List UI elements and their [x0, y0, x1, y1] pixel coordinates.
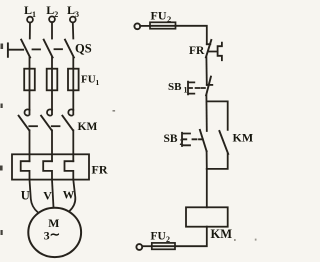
label KM (coil): [211, 227, 233, 241]
FR heater element pole3: [65, 161, 74, 179]
fuse FU2 bottom: [152, 243, 175, 249]
svg-text:1: 1: [184, 86, 188, 95]
terminal circle bottom: [136, 244, 142, 250]
svg-text:L: L: [67, 3, 75, 17]
svg-text:W: W: [63, 190, 75, 202]
wire FR to motor W: [70, 180, 76, 211]
wire L2 to QS: [51, 22, 53, 38]
wire QS to FU1 pole1: [29, 58, 31, 69]
label SB1: [168, 81, 188, 95]
wire QS to FU1 pole3: [72, 58, 74, 69]
wire FU1 to KM pole1: [29, 90, 31, 114]
fuse FU1 pole2: [47, 69, 58, 91]
SB1 NC contact blade: [206, 77, 211, 96]
KM aux NO contact blade: [219, 131, 228, 154]
svg-text:FR: FR: [92, 163, 108, 177]
wire junction to coil: [206, 169, 208, 207]
FR NC contact blade: [206, 40, 211, 57]
KM linkage dash 1: [29, 125, 37, 127]
wire FU1 to KM pole3: [72, 90, 74, 114]
terminal circle L1: [27, 17, 33, 23]
terminal circle L3: [70, 17, 76, 23]
motor label M: [48, 216, 59, 230]
contactor KM main contact pole2 (arc): [47, 109, 52, 115]
FR heater element pole1: [21, 161, 30, 179]
SB1 NC contact tick: [207, 84, 213, 86]
wire FR contact to SB1: [205, 57, 207, 85]
wire KM aux to bottom junction: [207, 154, 228, 169]
svg-text:FU: FU: [151, 9, 167, 23]
wire terminal to fuse FU2: [140, 25, 150, 27]
svg-text:FU: FU: [151, 231, 167, 243]
contactor coil KM: [186, 207, 228, 226]
label SB2: [164, 133, 184, 147]
wire FU2 to corner and down: [176, 26, 207, 44]
svg-text:L: L: [46, 3, 54, 17]
branch wire top (junction to KM aux): [207, 101, 228, 129]
svg-text:QS: QS: [75, 42, 92, 56]
svg-text:SB: SB: [164, 133, 178, 145]
wire fuse to terminal: [143, 245, 152, 247]
fuse FU1 pole3: [68, 69, 79, 91]
KM linkage dash 2: [52, 125, 60, 127]
wire SB1 to junction: [205, 95, 207, 131]
label FU2 bottom: [151, 231, 171, 245]
SB2 NO contact blade: [200, 130, 207, 151]
terminal circle top left of FU2: [134, 23, 140, 29]
svg-text:L: L: [24, 3, 32, 17]
FR thermal paddle: [209, 43, 222, 61]
svg-text:SB: SB: [168, 81, 182, 93]
wire KM to FR pole1: [29, 130, 31, 161]
wire FR to motor V: [52, 180, 54, 208]
label L2: [46, 3, 58, 19]
label U: [21, 189, 30, 203]
SB2 actuator dashes: [193, 138, 203, 140]
wire L1 to QS: [29, 23, 31, 39]
QS linkage dash 1: [33, 48, 41, 50]
label FU1: [81, 74, 100, 88]
motor M circle: [28, 208, 81, 257]
SB1 actuator E: [188, 82, 194, 95]
svg-text:∼: ∼: [50, 227, 60, 241]
label FR (overload): [92, 163, 108, 177]
contactor KM main contact pole3 (arc): [68, 109, 73, 115]
svg-text:V: V: [43, 188, 52, 202]
label FU2 top: [151, 9, 172, 25]
wire SB2 to bottom junction: [206, 151, 208, 169]
KM main blade pole2: [41, 116, 52, 131]
SB1 actuator dashes: [196, 87, 205, 89]
svg-text:1: 1: [96, 78, 100, 87]
thermal relay FR box: [12, 154, 89, 179]
wire KM to FR pole2: [51, 130, 53, 161]
fuse FU2 top: [150, 22, 176, 28]
KM main blade pole1: [19, 116, 30, 131]
wire coil to bottom: [175, 227, 207, 247]
switch QS handle: [8, 43, 23, 56]
label QS: [75, 42, 92, 56]
QS blade pole3: [65, 40, 74, 58]
wire FR to motor U: [30, 180, 39, 213]
contactor KM main contact pole1 (arc): [25, 109, 30, 115]
svg-text:U: U: [21, 189, 30, 203]
svg-text:2: 2: [166, 235, 170, 244]
label L1: [24, 3, 36, 19]
label KM (main contacts): [78, 121, 98, 133]
label FR (contact): [189, 45, 205, 57]
svg-text:KM: KM: [233, 131, 254, 145]
QS blade pole1: [21, 40, 30, 58]
svg-text:2: 2: [167, 14, 171, 24]
KM main blade pole3: [62, 116, 73, 131]
QS blade pole2: [44, 40, 53, 58]
svg-text:KM: KM: [78, 121, 98, 133]
label V: [43, 188, 52, 202]
fuse FU1 pole1: [24, 69, 35, 91]
label W: [63, 190, 75, 202]
svg-text:FR: FR: [189, 45, 205, 57]
terminal circle L2: [49, 16, 55, 22]
label KM (aux contact): [233, 131, 254, 145]
wire L3 to QS: [72, 22, 75, 38]
svg-text:FU: FU: [81, 74, 96, 86]
FR NC contact tick: [207, 43, 211, 45]
scan specks: [0, 44, 257, 242]
wire KM to FR pole3: [72, 130, 74, 161]
SB2 actuator E: [182, 133, 190, 146]
motor label 3~: [44, 227, 60, 242]
FR heater element pole2: [43, 161, 52, 179]
QS linkage dash 2: [55, 48, 63, 50]
wire QS to FU1 pole2: [51, 58, 53, 69]
label L3: [67, 3, 79, 19]
wire FU1 to KM pole2: [51, 90, 53, 114]
svg-text:KM: KM: [211, 227, 233, 241]
